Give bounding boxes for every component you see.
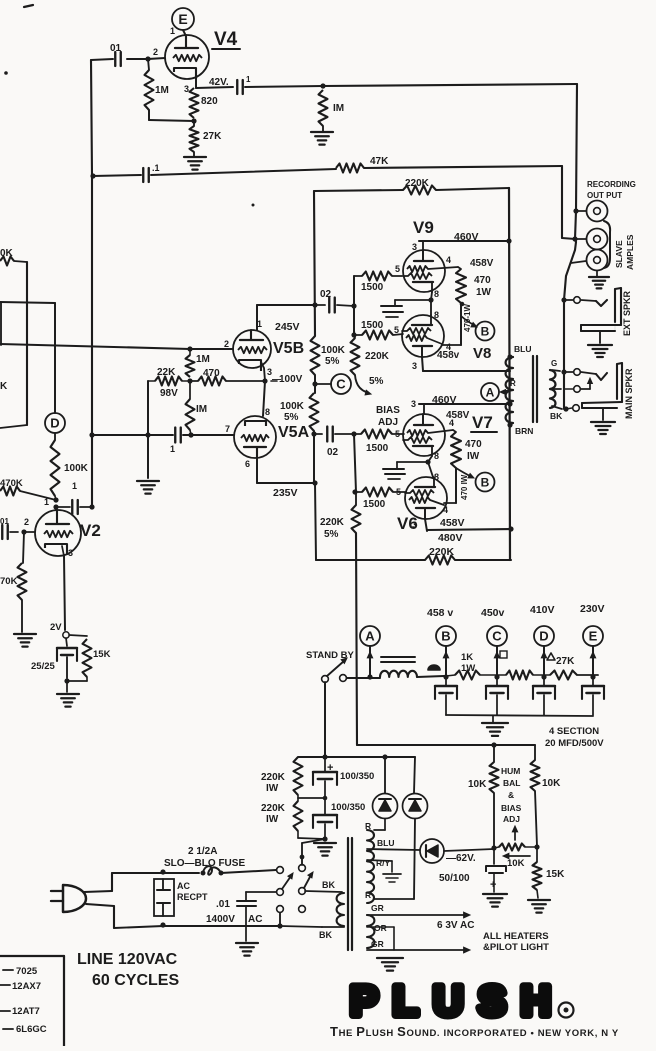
svg-text:IW: IW: [467, 451, 480, 462]
svg-text:—: —: [272, 374, 281, 384]
svg-text:100V: 100V: [279, 374, 303, 385]
svg-text:2: 2: [24, 517, 29, 527]
svg-text:4 SECTION: 4 SECTION: [549, 726, 599, 737]
svg-text:R: R: [510, 379, 516, 388]
svg-text:A: A: [365, 629, 375, 644]
svg-text:BIAS: BIAS: [376, 405, 400, 416]
svg-text:450v: 450v: [481, 607, 505, 619]
svg-text:3: 3: [412, 520, 417, 530]
svg-text:B: B: [441, 629, 450, 644]
svg-text:PLUSH: PLUSH: [350, 977, 554, 1024]
svg-text:2 1/2A: 2 1/2A: [188, 846, 217, 857]
svg-text:A: A: [486, 385, 495, 399]
svg-text:IM: IM: [196, 404, 207, 415]
svg-text:100K: 100K: [321, 345, 346, 356]
svg-text:.1: .1: [152, 163, 160, 173]
svg-text:15K: 15K: [93, 649, 111, 660]
svg-text:220K: 220K: [261, 772, 286, 783]
svg-text:10K: 10K: [468, 779, 487, 790]
svg-text:98V: 98V: [160, 388, 178, 399]
svg-text:&PILOT LIGHT: &PILOT LIGHT: [483, 942, 549, 953]
svg-text:410V: 410V: [530, 604, 555, 616]
svg-text:1W: 1W: [476, 287, 492, 298]
svg-text:5: 5: [394, 325, 399, 335]
svg-text:E: E: [178, 11, 187, 27]
svg-text:10K: 10K: [507, 858, 525, 869]
svg-text:3: 3: [68, 548, 73, 558]
svg-text:1M: 1M: [196, 354, 210, 365]
svg-text:AC: AC: [177, 881, 190, 891]
svg-text:5%: 5%: [369, 376, 384, 387]
svg-text:IW: IW: [266, 783, 279, 794]
svg-text:470: 470: [465, 439, 482, 450]
svg-text:OUT PUT: OUT PUT: [587, 191, 622, 200]
svg-text:60 CYCLES: 60 CYCLES: [92, 972, 179, 989]
svg-text:AMPLES: AMPLES: [625, 234, 635, 270]
svg-text:1W: 1W: [461, 663, 475, 674]
svg-text:2V: 2V: [50, 622, 62, 633]
svg-text:27K: 27K: [556, 656, 575, 667]
svg-text:100/350: 100/350: [340, 771, 374, 782]
svg-text:MAIN SPKR: MAIN SPKR: [624, 368, 634, 419]
svg-text:470: 470: [203, 368, 220, 379]
svg-text:8: 8: [434, 289, 439, 299]
svg-text:5%: 5%: [324, 529, 339, 540]
svg-text:25/25: 25/25: [31, 661, 55, 672]
svg-text:220K: 220K: [365, 351, 390, 362]
svg-text:D: D: [50, 416, 59, 431]
svg-text:7025: 7025: [16, 966, 38, 977]
svg-text:820: 820: [201, 96, 218, 107]
svg-text:1500: 1500: [361, 320, 384, 331]
svg-text:BK: BK: [550, 411, 563, 421]
svg-text:458V: 458V: [440, 517, 465, 529]
svg-text:4: 4: [446, 255, 451, 265]
svg-text:470: 470: [474, 275, 491, 286]
svg-text:6L6GC: 6L6GC: [16, 1024, 47, 1035]
svg-text:1: 1: [170, 444, 175, 454]
svg-text:458v: 458v: [437, 350, 460, 361]
svg-text:C: C: [492, 629, 502, 644]
svg-text:22K: 22K: [157, 367, 176, 378]
svg-text:IM: IM: [333, 103, 344, 114]
svg-text:70K: 70K: [0, 576, 18, 587]
svg-text:220K: 220K: [261, 803, 286, 814]
svg-text:E: E: [589, 629, 598, 644]
svg-text:1400V: 1400V: [206, 914, 235, 925]
svg-text:02: 02: [320, 289, 332, 300]
svg-text:D: D: [539, 629, 548, 644]
svg-text:BIAS: BIAS: [501, 803, 522, 813]
svg-text:C: C: [336, 377, 346, 392]
svg-text:V9: V9: [413, 218, 434, 237]
svg-text:V8: V8: [473, 345, 491, 362]
svg-text:01: 01: [0, 517, 9, 526]
svg-text:02: 02: [327, 447, 339, 458]
svg-text:3: 3: [412, 242, 417, 252]
svg-text:BRN: BRN: [515, 426, 533, 436]
svg-text:5: 5: [395, 264, 400, 274]
svg-text:SLAVE: SLAVE: [614, 240, 624, 268]
svg-text:HUM: HUM: [501, 766, 520, 776]
svg-text:100/350: 100/350: [331, 802, 365, 813]
svg-text:2: 2: [153, 47, 158, 57]
svg-text:220K: 220K: [320, 517, 345, 528]
svg-text:100K: 100K: [64, 463, 89, 474]
svg-text:STAND BY: STAND BY: [306, 650, 355, 661]
svg-text:G: G: [551, 359, 557, 368]
svg-text:1M: 1M: [155, 85, 169, 96]
svg-text:THE PLUSH SOUND. INCORPORATED: THE PLUSH SOUND. INCORPORATED • NEW YORK…: [330, 1024, 619, 1039]
svg-text:RECPT: RECPT: [177, 892, 208, 902]
svg-text:GR: GR: [371, 903, 384, 913]
svg-text:1500: 1500: [366, 443, 389, 454]
svg-text:BLU: BLU: [514, 344, 531, 354]
svg-text:100K: 100K: [280, 401, 305, 412]
svg-text:BK: BK: [322, 880, 335, 890]
svg-text:IW: IW: [266, 814, 279, 825]
svg-text:K: K: [0, 381, 8, 392]
svg-text:ADJ: ADJ: [378, 417, 398, 428]
svg-text:12AX7: 12AX7: [12, 981, 41, 992]
svg-text:V4: V4: [214, 29, 238, 50]
svg-text:V2: V2: [80, 521, 101, 540]
svg-text:GR: GR: [371, 939, 384, 949]
svg-text:BAL: BAL: [503, 778, 520, 788]
svg-text:8: 8: [434, 451, 439, 461]
svg-text:BLU: BLU: [377, 838, 394, 848]
svg-text:V5B: V5B: [273, 340, 304, 357]
svg-text:—62V.: —62V.: [446, 853, 476, 864]
svg-text:B: B: [481, 475, 490, 489]
svg-text:5%: 5%: [284, 412, 299, 423]
svg-text:458V: 458V: [470, 258, 494, 269]
svg-text:EXT SPKR: EXT SPKR: [622, 290, 632, 336]
svg-text:1500: 1500: [363, 499, 386, 510]
svg-text:245V: 245V: [275, 321, 300, 333]
svg-text:2: 2: [224, 339, 229, 349]
svg-text:1: 1: [44, 497, 49, 507]
svg-text:1: 1: [170, 26, 175, 36]
svg-text:235V: 235V: [273, 487, 298, 499]
svg-text:1K: 1K: [461, 652, 473, 663]
svg-text:1500: 1500: [361, 282, 384, 293]
svg-text:ALL HEATERS: ALL HEATERS: [483, 931, 549, 942]
svg-text:R/Y: R/Y: [376, 858, 391, 868]
svg-text:20 MFD/500V: 20 MFD/500V: [545, 738, 604, 749]
svg-text:&: &: [508, 790, 514, 800]
svg-text:RECORDING: RECORDING: [587, 180, 636, 189]
svg-text:8: 8: [265, 407, 270, 417]
svg-text:220K: 220K: [405, 178, 430, 189]
svg-text:15K: 15K: [546, 869, 565, 880]
svg-text:42V.: 42V.: [209, 77, 229, 88]
svg-text:27K: 27K: [203, 131, 222, 142]
svg-text:3: 3: [411, 399, 416, 409]
svg-text:6: 6: [245, 459, 250, 469]
svg-text:480V: 480V: [438, 532, 463, 544]
svg-text:.01: .01: [216, 899, 230, 910]
svg-text:6 3V AC: 6 3V AC: [437, 920, 474, 931]
svg-text:B: B: [481, 324, 490, 338]
svg-text:7: 7: [225, 424, 230, 434]
svg-text:BK: BK: [319, 930, 332, 940]
svg-text:SLO—BLO FUSE: SLO—BLO FUSE: [164, 858, 245, 869]
svg-text:458 v: 458 v: [427, 607, 453, 619]
svg-text:01: 01: [110, 43, 122, 54]
svg-text:1: 1: [246, 75, 251, 84]
svg-text:12AT7: 12AT7: [12, 1006, 40, 1017]
svg-text:3: 3: [184, 84, 189, 94]
svg-text:50/100: 50/100: [439, 873, 470, 884]
svg-text:10K: 10K: [542, 778, 561, 789]
svg-text:230V: 230V: [580, 603, 605, 615]
svg-text:5%: 5%: [325, 356, 340, 367]
svg-text:458V: 458V: [446, 410, 470, 421]
svg-text:1: 1: [72, 481, 77, 491]
svg-text:3: 3: [412, 361, 417, 371]
svg-text:V7: V7: [472, 413, 493, 432]
svg-text:OR: OR: [374, 923, 387, 933]
svg-text:V5A: V5A: [278, 424, 310, 441]
svg-text:ADJ: ADJ: [503, 814, 520, 824]
svg-text:LINE 120VAC: LINE 120VAC: [77, 951, 178, 968]
svg-text:47K: 47K: [370, 156, 389, 167]
svg-text:AC: AC: [248, 914, 262, 925]
